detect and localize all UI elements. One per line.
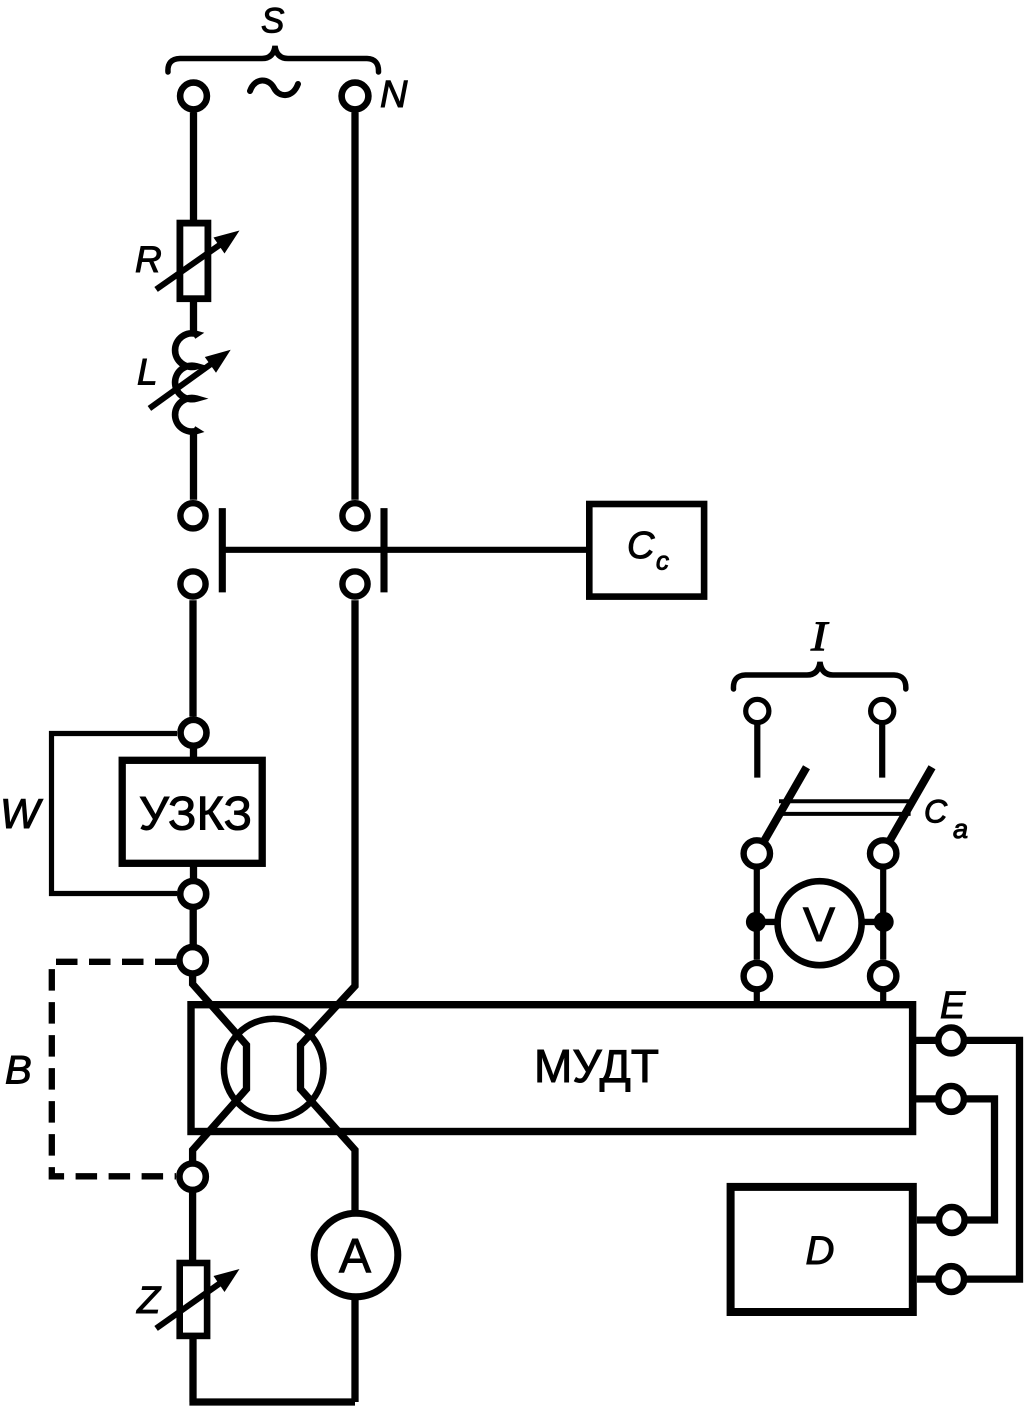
wire [754, 867, 760, 960]
contact circle right [870, 840, 896, 866]
wire [756, 919, 778, 925]
svg-text:D: D [806, 1229, 835, 1273]
svg-text:S: S [261, 2, 284, 41]
AC source symbol ~ [250, 80, 298, 95]
svg-text:a: a [953, 814, 968, 844]
svg-text:МУДТ: МУДТ [534, 1040, 659, 1092]
wire [880, 867, 886, 960]
terminal L1 [180, 83, 207, 110]
terminal E2 [938, 1086, 964, 1112]
terminal B bottom [179, 1164, 205, 1190]
wire MUDT to E1 [916, 1037, 938, 1044]
wire [189, 1297, 355, 1402]
box D [731, 1187, 913, 1312]
terminal B top [179, 947, 205, 973]
wire [190, 113, 197, 224]
transformer secondary wire (right, through core) [301, 600, 356, 1212]
dashed outline B [52, 962, 177, 1177]
wire E1 to outer loop [964, 1040, 1020, 1279]
wire [754, 723, 760, 778]
inductor L [175, 333, 196, 431]
arrow of Z [156, 1279, 226, 1328]
transformer primary wire (left, through core) [193, 974, 247, 1164]
arrow of R [156, 241, 226, 290]
switch S pole 2 upper contact [342, 503, 367, 528]
terminal circle left above MUDT [744, 963, 770, 989]
voltmeter V [778, 881, 862, 965]
switch Ca blade right [889, 767, 932, 842]
wire D to D2 [917, 1275, 939, 1282]
transformer core circle [224, 1019, 324, 1119]
terminal D1 [939, 1207, 965, 1233]
impedance Z [180, 1263, 207, 1336]
arrow of L [149, 360, 217, 409]
terminal N [342, 83, 369, 110]
wattmeter W loop [52, 734, 178, 894]
svg-text:V: V [803, 899, 835, 952]
svg-text:c: c [656, 545, 669, 575]
wire MUDT to E2 [916, 1095, 938, 1102]
wire [190, 863, 197, 881]
svg-text:R: R [135, 239, 162, 280]
wire [190, 431, 197, 500]
box УЗКЗ [122, 760, 262, 863]
wire E2 to inner loop [964, 1099, 995, 1220]
svg-text:I: I [810, 613, 829, 659]
svg-text:N: N [380, 74, 408, 116]
switch Ca linkage double line [779, 801, 911, 814]
wire [190, 746, 197, 760]
box МУДТ [191, 1005, 913, 1132]
box Cc [589, 504, 704, 597]
svg-text:Z: Z [136, 1280, 162, 1322]
switch S pole 1 bar [219, 508, 226, 592]
switch S pole 2 lower contact [342, 571, 367, 596]
wire N down [351, 113, 358, 500]
ammeter A [314, 1213, 398, 1297]
terminal D2 [938, 1266, 964, 1292]
wire [754, 989, 760, 1004]
junction dot left [746, 912, 766, 932]
brace I [733, 662, 905, 689]
svg-text:B: B [5, 1049, 32, 1093]
terminal W bottom [180, 881, 206, 907]
wire D to D1 [917, 1216, 939, 1223]
terminal W top [181, 720, 207, 746]
switch linkage to Cc [222, 547, 589, 553]
wire [190, 907, 197, 947]
wire [189, 600, 196, 716]
brace S [168, 46, 379, 72]
switch S pole 2 bar [380, 508, 387, 592]
svg-text:C: C [627, 525, 655, 567]
svg-text:L: L [137, 351, 158, 392]
wire [879, 723, 885, 778]
switch S pole 1 upper contact [180, 503, 205, 528]
resistor R [180, 223, 208, 299]
wire [190, 299, 197, 336]
switch Ca blade left [764, 767, 807, 842]
terminal circle right above MUDT [870, 963, 896, 989]
terminal I right [871, 699, 894, 722]
terminal I left [746, 699, 769, 722]
terminal E1 [938, 1028, 964, 1054]
svg-text:УЗКЗ: УЗКЗ [139, 786, 252, 839]
svg-text:A: A [339, 1230, 371, 1283]
svg-text:W: W [0, 790, 43, 837]
svg-text:C: C [924, 794, 948, 830]
wire [880, 989, 886, 1004]
svg-text:E: E [940, 985, 966, 1027]
contact circle left [744, 840, 770, 866]
wire [189, 1190, 196, 1263]
junction dot right [874, 912, 894, 932]
switch S pole 1 lower contact [180, 571, 205, 596]
wire [862, 919, 884, 925]
